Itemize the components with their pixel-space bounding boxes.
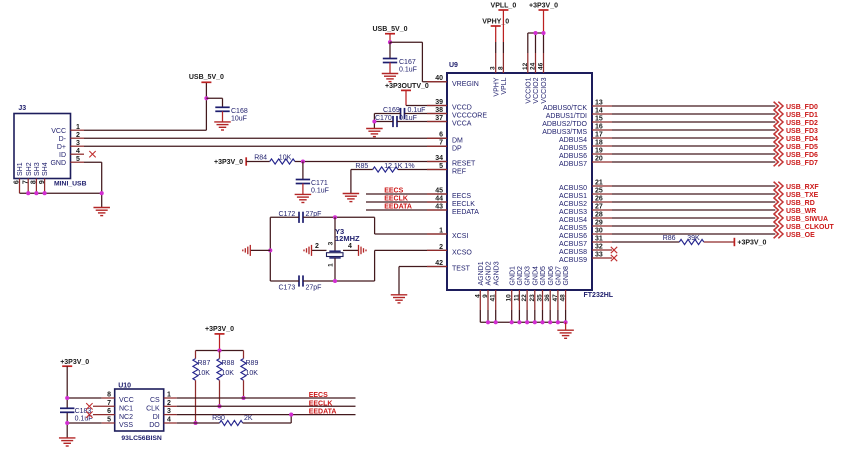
svg-text:42: 42 — [435, 260, 443, 267]
wire branch to C168 — [206, 98, 222, 107]
svg-text:20: 20 — [595, 155, 603, 162]
svg-text:USB_SIWUA: USB_SIWUA — [786, 216, 828, 223]
wire +3P3V_0 to R84 — [246, 161, 270, 163]
capacitor C167 0.1uF — [383, 59, 397, 63]
wire net USB_RD — [612, 201, 775, 203]
ground symbol below C183 — [59, 438, 75, 446]
svg-text:GND8: GND8 — [563, 266, 570, 286]
power symbol +3P3V_0 right — [733, 238, 735, 246]
svg-text:CLK: CLK — [146, 406, 160, 413]
ground symbol below R85 — [343, 194, 360, 202]
svg-text:16: 16 — [595, 123, 603, 130]
svg-text:DM: DM — [452, 137, 463, 144]
wire rail to U10 VCC pin 8 — [67, 397, 115, 399]
svg-text:VCC: VCC — [51, 128, 66, 135]
svg-text:USB_5V_0: USB_5V_0 — [372, 26, 407, 33]
svg-text:39: 39 — [435, 99, 443, 106]
wire +3P3OUTV_0 to VCCD pin 39 — [406, 90, 447, 105]
junction dot at C167 branch — [388, 40, 392, 44]
wire pullup rail — [196, 350, 244, 352]
port chevron USB_FD2 — [774, 118, 783, 127]
svg-text:ACBUS1: ACBUS1 — [559, 193, 587, 200]
svg-text:GND: GND — [50, 160, 66, 167]
port chevron USB_RD — [774, 198, 783, 207]
svg-text:10K: 10K — [222, 370, 235, 377]
svg-text:R88: R88 — [222, 360, 235, 367]
power symbol +3P3V_0 top — [529, 2, 558, 10]
svg-text:USB_RD: USB_RD — [786, 200, 815, 207]
wire crystal pin 3 — [334, 217, 336, 251]
svg-text:29: 29 — [595, 219, 603, 226]
port chevron USB_RXF — [774, 182, 783, 191]
svg-text:ACBUS6: ACBUS6 — [559, 233, 587, 240]
svg-text:SH4: SH4 — [42, 162, 49, 176]
svg-text:EEDATA: EEDATA — [309, 409, 337, 416]
svg-text:USB_FD6: USB_FD6 — [786, 152, 818, 159]
svg-text:ACBUS3: ACBUS3 — [559, 209, 587, 216]
svg-text:+3P3V_0: +3P3V_0 — [737, 240, 766, 247]
svg-text:VREGIN: VREGIN — [452, 81, 479, 88]
J3 shield pin wires — [20, 179, 45, 194]
svg-text:USB_5V_0: USB_5V_0 — [189, 74, 224, 81]
wire EEDATA from U10 DI — [164, 414, 356, 416]
svg-text:USB_FD3: USB_FD3 — [786, 128, 818, 135]
svg-text:15: 15 — [595, 115, 603, 122]
wire crystal pin 1 down — [334, 258, 336, 281]
capacitor C173 27pF — [299, 275, 303, 286]
wire C171 to ground — [302, 184, 304, 195]
junction dot GND bus — [100, 191, 104, 195]
svg-text:R87: R87 — [198, 360, 211, 367]
svg-text:37: 37 — [435, 115, 443, 122]
no-connect X ACBUS9 — [611, 255, 617, 261]
U10 left pin numbers — [107, 392, 111, 424]
U9 top pin names rotated — [493, 77, 548, 103]
svg-text:ADBUS1/TDI: ADBUS1/TDI — [546, 113, 587, 120]
junction dot R89 CS — [241, 396, 245, 400]
capacitor C169 0.1uF — [401, 108, 405, 119]
svg-text:44: 44 — [435, 195, 443, 202]
U9 left pin names — [452, 81, 487, 273]
IC U10 93LC56BISN body — [115, 389, 164, 431]
no-connect X ACBUS8 — [611, 247, 617, 253]
wire C169 to VCCCORE pin 38 — [405, 113, 448, 115]
svg-text:1: 1 — [328, 263, 335, 267]
svg-text:ADBUS2/TDO: ADBUS2/TDO — [542, 121, 587, 128]
svg-text:EEDATA: EEDATA — [384, 204, 412, 211]
wire R90 to EEDATA — [243, 415, 292, 423]
svg-text:AGND1: AGND1 — [478, 261, 485, 285]
U9 bottom pin numbers rotated — [474, 294, 566, 302]
wire net USB_SIWUA — [612, 217, 775, 219]
svg-text:27pF: 27pF — [306, 284, 322, 291]
wire C172 top rail to XCSI — [303, 217, 447, 234]
port chevron USB_FD4 — [774, 134, 783, 143]
junction dot USB_5V rail — [204, 96, 208, 100]
svg-text:45: 45 — [435, 187, 443, 194]
wire net USB_FD3 — [612, 129, 775, 131]
no-connect X U10 pin6 — [86, 411, 92, 417]
wire EECS from U10 CS — [164, 397, 356, 399]
wire shield ground bus — [20, 192, 102, 194]
svg-text:ADBUS5: ADBUS5 — [559, 145, 587, 152]
svg-text:USB_RXF: USB_RXF — [786, 184, 819, 191]
svg-text:AGND3: AGND3 — [493, 261, 500, 285]
svg-text:EECS: EECS — [452, 193, 471, 200]
capacitor C170 0.1uF — [393, 116, 397, 127]
resistor R89 10K — [241, 351, 259, 381]
svg-text:U9: U9 — [449, 62, 458, 69]
svg-text:31: 31 — [595, 235, 603, 242]
svg-text:19: 19 — [595, 147, 603, 154]
svg-text:VPLL: VPLL — [501, 77, 508, 94]
svg-text:40: 40 — [435, 75, 443, 82]
svg-text:1: 1 — [439, 227, 443, 234]
svg-text:DO: DO — [149, 422, 160, 429]
svg-text:USB_CLKOUT: USB_CLKOUT — [786, 224, 835, 231]
U9 left pin stubs — [427, 82, 447, 267]
svg-text:USB_FD0: USB_FD0 — [786, 104, 818, 111]
wire R88 to CLK line — [219, 380, 221, 406]
junction dots on shield bus — [26, 191, 46, 195]
svg-text:EECS: EECS — [384, 188, 403, 195]
svg-text:D-: D- — [59, 136, 67, 143]
svg-text:GND5: GND5 — [540, 266, 547, 286]
svg-text:GND3: GND3 — [525, 266, 532, 286]
junction dot VCCIO3 — [541, 31, 545, 35]
svg-text:0.1uF: 0.1uF — [311, 188, 329, 195]
wire net USB_FD2 — [612, 121, 775, 123]
J3 shield pin numbers 6-9 — [14, 180, 46, 184]
svg-text:C168: C168 — [231, 108, 248, 115]
svg-text:USB_TXE: USB_TXE — [786, 192, 819, 199]
svg-text:21: 21 — [595, 179, 603, 186]
svg-text:32: 32 — [595, 243, 603, 250]
wire net USB_CLKOUT — [612, 225, 775, 227]
junction dot left crystal rail — [268, 248, 272, 252]
wire D+ to U9 DP — [84, 145, 447, 147]
svg-text:43: 43 — [435, 203, 443, 210]
J3 pin stubs right side — [70, 130, 84, 162]
svg-text:GND4: GND4 — [532, 266, 539, 286]
port chevron USB_FD3 — [774, 126, 783, 135]
svg-text:28: 28 — [595, 211, 603, 218]
capacitor C183 0.1uF — [60, 408, 74, 412]
resistor R86 39K — [679, 239, 704, 244]
ground symbol under U9 — [557, 330, 574, 338]
wire EECLK to U9 pin 44 — [366, 201, 447, 203]
svg-text:VCCIO1: VCCIO1 — [525, 77, 532, 103]
svg-text:EECLK: EECLK — [309, 400, 333, 407]
svg-text:+3P3V_0: +3P3V_0 — [529, 2, 558, 9]
svg-text:TEST: TEST — [452, 266, 471, 273]
svg-text:SH1: SH1 — [17, 162, 24, 176]
svg-text:93LC56BISN: 93LC56BISN — [121, 435, 162, 442]
wire net USB_FD4 — [612, 137, 775, 139]
resistor R84 10K — [270, 159, 295, 164]
svg-text:2: 2 — [315, 243, 319, 250]
no-connect X U10 pin7 — [86, 403, 92, 409]
power symbol VPHY_0 — [482, 18, 509, 26]
svg-text:VCCIO3: VCCIO3 — [541, 77, 548, 103]
ground symbol below C167 — [382, 74, 399, 82]
svg-text:4: 4 — [348, 243, 352, 250]
junction dots ground bus — [486, 320, 568, 324]
svg-text:CS: CS — [150, 397, 160, 404]
svg-text:VPLL_0: VPLL_0 — [491, 2, 517, 9]
wire U10 DO to R90 — [164, 422, 220, 424]
svg-text:VCCD: VCCD — [452, 105, 472, 112]
wire R89 to CS line — [243, 380, 245, 398]
svg-text:+3P3V_0: +3P3V_0 — [60, 359, 89, 366]
port chevron USB_FD7 — [774, 158, 783, 167]
wire ground bus under U9 — [480, 321, 565, 323]
svg-text:GND7: GND7 — [556, 266, 563, 286]
svg-text:GND1: GND1 — [509, 266, 516, 286]
wire USB_5V to C167 — [389, 42, 391, 58]
svg-text:25: 25 — [595, 187, 603, 194]
svg-text:+3P3V_0: +3P3V_0 — [214, 159, 243, 166]
J3 shield pin names SH1-SH4 — [17, 162, 49, 176]
svg-text:26: 26 — [595, 195, 603, 202]
wire net USB_WR — [612, 209, 775, 211]
wire +3P3V stem to rail — [219, 334, 221, 351]
wire +3P3V rail down — [66, 366, 68, 438]
wire down to C171 — [302, 162, 304, 180]
svg-text:ID: ID — [59, 152, 66, 159]
svg-text:ACBUS9: ACBUS9 — [559, 257, 587, 264]
J3 pin numbers 1-5 — [76, 124, 80, 163]
svg-text:R85: R85 — [355, 163, 368, 170]
port chevron USB_FD5 — [774, 142, 783, 151]
wire EECS to U9 pin 45 — [366, 193, 447, 195]
svg-text:27: 27 — [595, 203, 603, 210]
crystal pin 2 wire — [312, 249, 327, 251]
svg-text:R86: R86 — [663, 235, 676, 242]
svg-text:10K: 10K — [279, 155, 292, 162]
svg-text:+3P3OUTV_0: +3P3OUTV_0 — [385, 83, 429, 90]
svg-text:12MHZ: 12MHZ — [335, 234, 360, 243]
connector J3 MINI_USB body — [14, 114, 71, 179]
wire C170 to VCCA pin 37 — [397, 121, 447, 123]
port chevron USB_FD6 — [774, 150, 783, 159]
svg-text:18: 18 — [595, 139, 603, 146]
wire net USB_RXF — [612, 185, 775, 187]
svg-text:AGND2: AGND2 — [486, 261, 493, 285]
svg-text:D+: D+ — [57, 144, 66, 151]
svg-text:U10: U10 — [118, 382, 131, 389]
ground symbol below C169/C170 — [366, 129, 383, 137]
wire USB_5V_0 stem — [389, 34, 391, 43]
U9 right pin numbers — [595, 99, 603, 258]
svg-text:38: 38 — [435, 107, 443, 114]
resistor R85 12.1K 1% — [373, 167, 398, 172]
svg-text:REF: REF — [452, 169, 466, 176]
junction dot crystal pin1 — [333, 279, 337, 283]
svg-text:SH3: SH3 — [34, 162, 41, 176]
wire to VREGIN pin 40 — [390, 42, 447, 82]
U10 right pin names — [146, 397, 160, 429]
resistor R87 10K — [193, 351, 211, 381]
svg-text:USB_FD5: USB_FD5 — [786, 144, 818, 151]
svg-text:VCC: VCC — [119, 397, 134, 404]
svg-text:XCSO: XCSO — [452, 250, 472, 257]
port chevron USB_FD1 — [774, 110, 783, 119]
U9 left pin numbers — [435, 75, 443, 267]
wire net USB_FD0 — [612, 105, 775, 107]
svg-text:ACBUS0: ACBUS0 — [559, 185, 587, 192]
svg-text:VPHY_0: VPHY_0 — [482, 18, 509, 25]
svg-text:DI: DI — [153, 414, 160, 421]
junction dot at C171 — [301, 159, 305, 163]
U9 right pin stubs — [592, 106, 612, 258]
svg-text:J3: J3 — [18, 105, 26, 112]
wire VCCIO3 — [543, 10, 545, 73]
junction dot VSS rail — [65, 421, 69, 425]
port chevron USB_CLKOUT — [774, 222, 783, 231]
crystal Y3 12MHZ body — [327, 251, 344, 258]
port chevron USB_WR — [774, 206, 783, 215]
U10 left pin names — [119, 397, 134, 429]
wire EECLK from U10 CLK — [164, 405, 356, 407]
svg-text:3: 3 — [328, 241, 335, 245]
sideways ground left of crystal — [243, 245, 251, 256]
svg-text:0.1uF: 0.1uF — [408, 107, 426, 114]
svg-text:EECS: EECS — [309, 392, 328, 399]
wire VCCIO1 elbow — [528, 33, 544, 73]
capacitor C172 27pF — [299, 212, 303, 223]
U9 top pin numbers rotated — [490, 62, 545, 70]
wire C167 to ground — [389, 63, 391, 74]
svg-text:5: 5 — [439, 163, 443, 170]
svg-text:14: 14 — [595, 107, 603, 114]
svg-text:C169: C169 — [383, 107, 400, 114]
no-connect X on J3 pin 4 ID — [89, 151, 95, 157]
junction dot R90 EEDATA — [289, 413, 293, 417]
port chevron USB_FD0 — [774, 102, 783, 111]
J3 pin names — [50, 128, 66, 167]
svg-text:VPHY: VPHY — [493, 77, 500, 96]
power symbol +3P3V_0 at U10 — [60, 359, 89, 366]
port chevron USB_TXE — [774, 190, 783, 199]
wire net USB_FD5 — [612, 145, 775, 147]
port chevron USB_SIWUA — [774, 214, 783, 223]
svg-text:ADBUS0/TCK: ADBUS0/TCK — [543, 105, 587, 112]
svg-text:ACBUS4: ACBUS4 — [559, 217, 587, 224]
wire TEST to ground — [399, 267, 447, 295]
svg-text:0.1uF: 0.1uF — [75, 416, 93, 423]
junction dot R88 CLK — [217, 404, 221, 408]
svg-text:VSS: VSS — [119, 422, 133, 429]
svg-text:39K: 39K — [687, 235, 700, 242]
svg-text:33: 33 — [595, 251, 603, 258]
power symbol USB_5V_0 top — [372, 26, 407, 34]
IC U9 FT232HL body — [447, 73, 592, 290]
junction dot R87 DO — [193, 421, 197, 425]
svg-text:30: 30 — [595, 227, 603, 234]
U10 NC pin stubs — [93, 406, 115, 414]
capacitor C171 0.1uF — [296, 180, 310, 184]
svg-text:VCCA: VCCA — [452, 121, 472, 128]
junction dot C170 rail — [372, 119, 376, 123]
wire net USB_FD7 — [612, 161, 775, 163]
svg-text:USB_OE: USB_OE — [786, 232, 815, 239]
junction dot pullup rail — [217, 348, 221, 352]
capacitor C168 10uF — [215, 107, 229, 111]
sideways ground at crystal pin 2 — [304, 245, 312, 256]
svg-text:EECLK: EECLK — [384, 196, 408, 203]
svg-text:DP: DP — [452, 145, 462, 152]
wire to left ground — [250, 249, 270, 251]
svg-text:0.1uF: 0.1uF — [399, 67, 417, 74]
svg-text:ACBUS2: ACBUS2 — [559, 201, 587, 208]
wire net USB_TXE — [612, 193, 775, 195]
svg-text:ACBUS5: ACBUS5 — [559, 225, 587, 232]
sideways ground at crystal pin 4 — [359, 245, 367, 256]
ground symbol below TEST — [391, 295, 408, 303]
power symbol +3P3V_0 at R84 — [245, 157, 247, 165]
svg-text:GND6: GND6 — [548, 266, 555, 286]
junction dot crystal pin3 — [333, 215, 337, 219]
ground symbol below C168 — [214, 122, 231, 130]
svg-text:C167: C167 — [399, 59, 416, 66]
crystal pin 4 wire — [343, 249, 359, 251]
svg-text:ADBUS6: ADBUS6 — [559, 153, 587, 160]
junction dot VCCIO2 — [533, 31, 537, 35]
svg-text:MINI_USB: MINI_USB — [54, 181, 87, 188]
wire VPLL — [502, 10, 504, 73]
resistor R90 2K — [220, 420, 243, 425]
wire rail to U10 VSS pin 5 — [67, 422, 115, 424]
wire VPHY — [495, 26, 497, 73]
svg-text:10K: 10K — [198, 370, 211, 377]
wire R84 to RESET pin 34 — [295, 161, 447, 163]
ground symbol below J3 — [93, 208, 110, 216]
svg-text:USB_FD2: USB_FD2 — [786, 120, 818, 127]
wire R85 left to ground — [351, 170, 373, 194]
svg-text:USB_FD4: USB_FD4 — [786, 136, 818, 143]
svg-text:VCCIO2: VCCIO2 — [533, 77, 540, 103]
svg-text:NC2: NC2 — [119, 414, 133, 421]
svg-text:USB_FD7: USB_FD7 — [786, 160, 818, 167]
svg-text:GND2: GND2 — [517, 266, 524, 286]
svg-text:EEDATA: EEDATA — [452, 209, 479, 216]
svg-text:2K: 2K — [244, 415, 253, 422]
wire C173 bottom rail to XCSO — [303, 250, 447, 281]
svg-text:XCSI: XCSI — [452, 233, 468, 240]
svg-text:ACBUS8: ACBUS8 — [559, 249, 587, 256]
wire bus to ground — [565, 322, 567, 330]
svg-text:NC1: NC1 — [119, 406, 133, 413]
power symbol VPLL_0 — [491, 2, 517, 10]
svg-text:VCCCORE: VCCCORE — [452, 113, 487, 120]
U9 bottom pin names rotated — [478, 261, 570, 285]
U9 bottom ground pin wires — [480, 290, 565, 322]
wire net USB_FD1 — [612, 113, 775, 115]
wire R85 to REF pin 5 — [398, 169, 447, 171]
resistor R88 10K — [217, 351, 235, 381]
U9 right pin names — [542, 105, 587, 264]
wire VCCIO2 — [535, 33, 537, 73]
svg-text:SH2: SH2 — [26, 162, 33, 176]
svg-text:10K: 10K — [246, 370, 259, 377]
wire C169 left — [374, 114, 400, 129]
power symbol USB_5V_0 left — [189, 74, 224, 82]
svg-text:C171: C171 — [311, 180, 328, 187]
svg-text:34: 34 — [435, 155, 443, 162]
wire R86 to +3P3V_0 — [704, 241, 735, 243]
svg-text:17: 17 — [595, 131, 603, 138]
